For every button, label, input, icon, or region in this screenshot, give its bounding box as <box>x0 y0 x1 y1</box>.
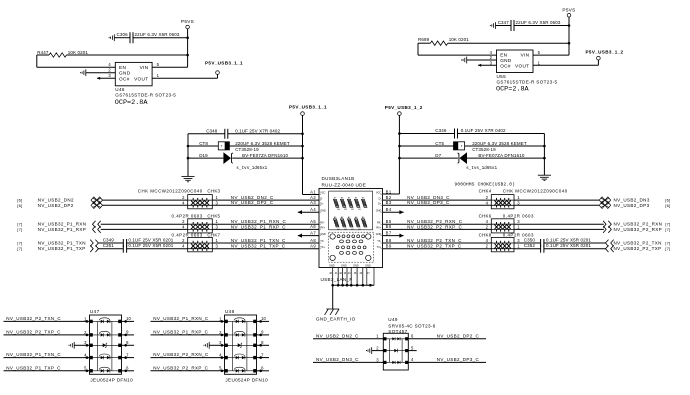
ground U55 pin2 <box>461 57 497 64</box>
svg-text:s_tvs_1d65x1: s_tvs_1d65x1 <box>466 166 497 171</box>
wire P5VS rail down (left) <box>187 29 189 68</box>
capacitor C306 22UF 6.3V X5R 0603 <box>109 32 188 43</box>
svg-text:[7]: [7] <box>17 241 22 246</box>
transistor U48 ESD array JEU0524P <box>151 309 270 383</box>
capacitor C352 0.1UF 25V X5R 0201 <box>514 243 591 253</box>
svg-text:RUU-ZZ-0040 UDE: RUU-ZZ-0040 UDE <box>322 183 367 188</box>
power flag P5V_USB3_1_1 (mid) <box>289 105 327 116</box>
connector pin labels B1-B9 <box>386 189 392 248</box>
svg-text:NV_USB2_DP3_C: NV_USB2_DP3_C <box>407 200 450 205</box>
svg-text:VOUT: VOUT <box>515 64 529 69</box>
connector GND stubs <box>333 268 374 286</box>
connector mounting holes <box>330 234 371 261</box>
power flag P5VS (right) <box>562 7 575 17</box>
wire NV_USB32_P2_TXN_C from connector B8 <box>383 238 492 243</box>
wire GND bus to earth <box>332 285 334 309</box>
ground U47 pin3 <box>68 342 89 349</box>
port NV_USB32_P2_RXP <box>514 226 671 233</box>
svg-text:[7]: [7] <box>665 246 670 251</box>
svg-text:P5V_USB3_1_1: P5V_USB3_1_1 <box>205 60 243 65</box>
svg-text:NV_USB32_P1_RXP: NV_USB32_P1_RXP <box>38 227 86 232</box>
wire P5V_USB3_1_2 rail to connector B1 <box>383 115 401 194</box>
svg-text:BV-FE07ZA DFN1610: BV-FE07ZA DFN1610 <box>478 153 524 158</box>
choke CHK6 <box>486 219 521 233</box>
label CHK5 part number <box>172 213 221 218</box>
connector GND labels bottom <box>329 264 371 267</box>
svg-text:22UF 6.3V X5R 0603: 22UF 6.3V X5R 0603 <box>516 20 561 25</box>
wire NV_USB32_P1_RXP_C to connector A6 <box>212 224 319 229</box>
svg-text:NV_USB32_P1_TXP_C: NV_USB32_P1_TXP_C <box>6 365 61 370</box>
svg-text:P5VS: P5VS <box>562 7 575 12</box>
svg-text:GND: GND <box>376 209 382 212</box>
svg-text:RX+: RX+ <box>320 227 325 230</box>
svg-text:NV_USB32_P1_TXP_C: NV_USB32_P1_TXP_C <box>231 244 286 249</box>
wire NV_USB2_DN3_C to U49 pin3 <box>313 357 383 362</box>
connector pin name labels <box>319 192 383 249</box>
wire C349 to CHK7 <box>127 242 188 244</box>
ground U49 pin2 <box>366 347 383 354</box>
label CHK4 part number <box>479 189 568 194</box>
svg-text:JEU0524P DFN10: JEU0524P DFN10 <box>225 378 268 383</box>
svg-text:RX+: RX+ <box>376 227 381 230</box>
svg-text:EN: EN <box>119 65 126 70</box>
wire U55 VIN pin5 <box>533 54 569 56</box>
wire P5V_USB3_1_1 rail to connector A1 <box>301 115 319 194</box>
svg-text:C346: C346 <box>435 128 447 133</box>
wire NV_USB2_DP2_C from U49 pin6 <box>408 334 486 339</box>
port NV_USB2_DP2 <box>17 202 102 208</box>
svg-text:C306: C306 <box>117 32 129 37</box>
svg-text:A9: A9 <box>310 244 316 249</box>
svg-text:CHK MCCW2012Z090C040: CHK MCCW2012Z090C040 <box>138 189 203 194</box>
wire EN feedback (right) <box>417 43 419 55</box>
svg-text:GND: GND <box>500 58 512 63</box>
svg-text:JEU0524P DFN10: JEU0524P DFN10 <box>90 378 133 383</box>
port NV_USB32_P1_TXN <box>17 240 98 247</box>
svg-text:0.1UF 25V X7R 0402: 0.1UF 25V X7R 0402 <box>235 128 280 133</box>
svg-text:B3: B3 <box>386 200 392 205</box>
wire NV_USB32_P1_RXP to CHK5 <box>101 228 188 230</box>
ground U48 pin3 <box>203 342 224 349</box>
wire NV_USB2_DP3_C from U49 pin4 <box>408 357 486 362</box>
svg-text:NV_USB32_P1_TXN_C: NV_USB32_P1_TXN_C <box>6 352 61 357</box>
connector pin labels A1-A9 <box>310 189 316 248</box>
wire U49 pin5 stub <box>408 345 416 350</box>
svg-text:22UF 6.3V X5R 0603: 22UF 6.3V X5R 0603 <box>135 32 180 37</box>
port NV_USB2_DP3 <box>514 202 671 208</box>
capacitor CT5 220UF 6.3V 3528 KEMET <box>399 141 544 152</box>
svg-text:U46: U46 <box>115 87 125 92</box>
wire EN feedback (left) <box>36 55 38 67</box>
svg-text:OCP=2.8A: OCP=2.8A <box>115 99 149 107</box>
port NV_USB32_P2_TXN <box>544 240 671 247</box>
port NV_USB2_DN2 <box>17 197 102 203</box>
svg-text:0.1UF 25V X5R 0201: 0.1UF 25V X5R 0201 <box>128 237 173 242</box>
svg-text:220UF 6.3V 3528 KEMET: 220UF 6.3V 3528 KEMET <box>472 141 527 146</box>
svg-text:A1: A1 <box>310 189 316 194</box>
svg-text:NV_USB32_P2_RXP: NV_USB32_P2_RXP <box>614 227 662 232</box>
svg-text:R447: R447 <box>37 50 49 55</box>
wire NV_USB2_DN2_C to connector A2 <box>212 195 319 200</box>
svg-text:NV_USB32_P1_TXN_C: NV_USB32_P1_TXN_C <box>231 238 286 243</box>
svg-text:NV_USB32_P2_TXP_C: NV_USB32_P2_TXP_C <box>407 244 462 249</box>
svg-text:0.1UF 25V X5R 0201: 0.1UF 25V X5R 0201 <box>128 243 173 248</box>
transistor U49 ESD array SRV05-4C <box>376 317 436 370</box>
wire NV_USB32_P2_RXN_C from connector B5 <box>383 219 492 224</box>
capacitor C350 0.1UF 25V X5R 0201 <box>514 237 591 247</box>
wire NV_USB2_DN3_C from connector B2 <box>383 195 492 200</box>
wire NV_USB32_P1_RXN_C to connector A5 <box>212 219 319 224</box>
label CHK7 part number <box>172 232 221 237</box>
power flag P5VS (left) <box>181 19 194 29</box>
svg-text:CHK MCCW2012Z090C040: CHK MCCW2012Z090C040 <box>503 189 568 194</box>
wire U46 OC# no-connect arrow <box>97 77 115 80</box>
capacitor C349 0.1UF 25V X5R 0201 <box>98 237 174 247</box>
wire A4 stub arrow <box>298 211 319 213</box>
svg-text:U49: U49 <box>388 317 398 322</box>
svg-text:B8: B8 <box>386 238 392 243</box>
resistor R689 10K 0201 <box>418 37 569 45</box>
svg-text:GS7615STDE-R SOT23-5: GS7615STDE-R SOT23-5 <box>115 93 176 98</box>
svg-text:U55: U55 <box>497 74 507 79</box>
svg-text:CT3528-19: CT3528-19 <box>235 147 259 152</box>
power flag P5V_USB3_1_2 (mid) <box>385 105 423 115</box>
ground earth (left filter) <box>181 176 194 181</box>
svg-text:CHK6: CHK6 <box>479 213 492 218</box>
svg-text:TX-: TX- <box>320 240 324 243</box>
ground earth (right filter) <box>538 175 551 180</box>
wire P5VS rail down (right) <box>568 17 570 55</box>
svg-text:NV_USB2_DN2_C: NV_USB2_DN2_C <box>316 334 359 339</box>
connector contact pads row2 <box>334 219 367 227</box>
svg-text:GND: GND <box>341 264 347 267</box>
svg-text:U47: U47 <box>90 309 100 314</box>
svg-text:NV_USB2_DN3_C: NV_USB2_DN3_C <box>316 357 359 362</box>
svg-text:R689: R689 <box>418 37 430 42</box>
svg-text:NV_USB32_P2_RXP_C: NV_USB32_P2_RXP_C <box>153 365 208 370</box>
svg-text:P5VS: P5VS <box>181 19 194 24</box>
svg-text:CHK8: CHK8 <box>479 232 492 237</box>
power flag P5V_USB3_1_2 (top) <box>586 50 624 60</box>
svg-text:NV_USB2_DP2: NV_USB2_DP2 <box>38 203 74 208</box>
port NV_USB32_P2_RXN <box>514 221 671 228</box>
connector inner shield box <box>329 191 373 230</box>
svg-text:NV_USB32_P1_RXP_C: NV_USB32_P1_RXP_C <box>231 224 286 229</box>
svg-text:D19: D19 <box>199 153 208 158</box>
svg-text:VIN: VIN <box>140 65 149 70</box>
svg-text:0.1UF 25V X5R 0201: 0.1UF 25V X5R 0201 <box>546 237 591 242</box>
wire NV_USB2_DP2_C to connector A3 <box>212 200 319 205</box>
svg-text:CT3528-19: CT3528-19 <box>472 147 496 152</box>
svg-text:TX-: TX- <box>377 240 381 243</box>
svg-text:CT8: CT8 <box>199 141 208 146</box>
wire NV_USB2_DN2_C to U49 pin1 <box>313 334 383 339</box>
wire NV_USB2_DP2 to CHK3 <box>103 204 188 206</box>
port NV_USB2_DN3 <box>514 197 671 203</box>
svg-text:U48: U48 <box>225 309 235 314</box>
svg-text:D+: D+ <box>378 203 382 206</box>
svg-text:VCC: VCC <box>376 192 381 195</box>
svg-text:CHK3: CHK3 <box>207 189 220 194</box>
capacitor CT8 220UF 6.3V 3528 KEMET <box>188 141 303 152</box>
transistor U47 ESD array JEU0524P <box>4 309 135 383</box>
svg-text:0.1UF 25V X7R 0402: 0.1UF 25V X7R 0402 <box>461 128 506 133</box>
svg-text:NV_USB32_P1_TXN: NV_USB32_P1_TXN <box>38 241 86 246</box>
svg-text:CHK7: CHK7 <box>207 232 220 237</box>
op-amp U55 regulator GS7615STDE-R <box>490 50 558 94</box>
svg-text:NV_USB32_P2_RXN_C: NV_USB32_P2_RXN_C <box>153 352 209 357</box>
choke CHK3 <box>182 195 218 209</box>
svg-text:C351: C351 <box>103 243 115 248</box>
svg-text:NV_USB32_P1_TXP: NV_USB32_P1_TXP <box>38 246 86 251</box>
svg-text:A8: A8 <box>310 238 316 243</box>
capacitor C346 0.1UF 25V X7R 0402 <box>399 128 544 138</box>
svg-text:P5V_USB3_1_1: P5V_USB3_1_1 <box>289 105 327 110</box>
svg-text:NV_USB32_P2_RXP_C: NV_USB32_P2_RXP_C <box>407 224 462 229</box>
connector through holes <box>336 235 366 254</box>
svg-text:220UF 6.3V 3528 KEMET: 220UF 6.3V 3528 KEMET <box>235 141 290 146</box>
wire U55 VOUT to P5V_USB3_1_2 <box>533 60 598 65</box>
svg-text:D-: D- <box>320 197 323 200</box>
wire B4 stub arrow <box>383 211 404 213</box>
wire U46 VOUT to P5V_USB3_1_1 <box>152 74 217 78</box>
svg-text:C350: C350 <box>524 237 536 242</box>
svg-text:NV_USB32_P2_TXP_C: NV_USB32_P2_TXP_C <box>6 330 61 335</box>
svg-text:GND: GND <box>320 233 326 236</box>
capacitor C351 0.1UF 25V X5R 0201 <box>98 243 174 253</box>
ground U46 pin2 <box>80 69 115 76</box>
wire U46 VIN pin5 <box>152 66 188 68</box>
svg-text:B4: B4 <box>386 207 392 212</box>
svg-text:10K 0201: 10K 0201 <box>449 37 470 42</box>
svg-text:s_tvs_1d65x1: s_tvs_1d65x1 <box>236 166 267 171</box>
svg-text:B7: B7 <box>386 230 392 235</box>
port NV_USB32_P2_TXP <box>544 245 671 252</box>
label CHK3 part number <box>138 189 221 194</box>
svg-text:GND: GND <box>329 264 335 267</box>
svg-text:DUSB3LAN1B: DUSB3LAN1B <box>322 176 355 181</box>
svg-text:C347: C347 <box>498 20 510 25</box>
svg-text:OCP=2.8A: OCP=2.8A <box>496 86 530 94</box>
svg-text:BV-FE07ZA DFN1610: BV-FE07ZA DFN1610 <box>242 153 288 158</box>
connector contact pads row1 <box>334 199 367 207</box>
svg-text:NV_USB32_P1_RXP_C: NV_USB32_P1_RXP_C <box>153 330 208 335</box>
svg-text:GND: GND <box>320 209 326 212</box>
svg-text:GND: GND <box>365 264 371 267</box>
svg-text:D-: D- <box>379 197 382 200</box>
svg-text:OC#: OC# <box>119 76 130 81</box>
svg-text:CHK4: CHK4 <box>479 189 492 194</box>
svg-text:[7]: [7] <box>17 227 22 232</box>
choke CHK5 <box>182 219 218 233</box>
svg-text:NV_USB2_DP3_C: NV_USB2_DP3_C <box>437 357 480 362</box>
svg-text:10: 10 <box>126 316 131 321</box>
wire NV_USB32_P2_TXP_C from connector B9 <box>383 244 492 249</box>
svg-text:B1: B1 <box>386 189 392 194</box>
svg-text:GND: GND <box>119 71 131 76</box>
svg-text:D+: D+ <box>320 203 324 206</box>
svg-text:CT5: CT5 <box>435 141 444 146</box>
svg-text:C349: C349 <box>103 237 115 242</box>
choke CHK7 <box>182 237 218 251</box>
svg-text:GND_EARTH_IO: GND_EARTH_IO <box>316 317 356 322</box>
label CHK8 part number <box>479 232 534 237</box>
svg-text:P5V_USB3_1_2: P5V_USB3_1_2 <box>586 50 624 55</box>
svg-text:NV_USB32_P2_TXP: NV_USB32_P2_TXP <box>614 246 662 251</box>
wire C351 to CHK7 <box>127 248 188 250</box>
svg-text:[7]: [7] <box>665 241 670 246</box>
svg-text:VOUT: VOUT <box>134 76 148 81</box>
svg-text:A6: A6 <box>310 224 316 229</box>
svg-text:NV_USB32_P2_TXN_C: NV_USB32_P2_TXN_C <box>407 238 462 243</box>
svg-text:900OHMS CHOKE(USB2.0): 900OHMS CHOKE(USB2.0) <box>455 183 516 188</box>
wire NV_USB32_P2_RXP_C from connector B6 <box>383 224 492 229</box>
svg-text:[6]: [6] <box>665 203 670 208</box>
wire B7 stub arrow <box>383 235 404 237</box>
svg-text:[6]: [6] <box>17 203 22 208</box>
wire NV_USB32_P1_TXP_C to connector A9 <box>212 244 319 249</box>
capacitor C348 0.1UF 25V X7R 0402 <box>188 128 303 138</box>
svg-text:C352: C352 <box>524 243 536 248</box>
resistor R447 10K 0201 <box>37 50 188 57</box>
svg-text:NV_USB2_DP3: NV_USB2_DP3 <box>614 203 650 208</box>
wire NV_USB2_DP3_C from connector B3 <box>383 200 492 205</box>
wire right ground rail <box>543 134 546 176</box>
wire GND bus <box>331 284 374 287</box>
svg-text:NV_USB32_P2_TXN_C: NV_USB32_P2_TXN_C <box>6 316 61 321</box>
svg-text:GND: GND <box>376 233 382 236</box>
svg-text:0.4P2R 0603: 0.4P2R 0603 <box>503 213 534 218</box>
svg-text:10: 10 <box>261 316 266 321</box>
label CHK6 part number <box>479 213 534 218</box>
svg-text:B9: B9 <box>386 244 392 249</box>
svg-text:GS7615STDE-R SOT23-5: GS7615STDE-R SOT23-5 <box>497 80 558 85</box>
op-amp U46 regulator GS7615STDE-R <box>108 62 176 107</box>
svg-text:VCC: VCC <box>320 192 325 195</box>
svg-text:D7: D7 <box>435 153 441 158</box>
wire left ground rail <box>187 134 190 176</box>
svg-text:0.4P2R 0603: 0.4P2R 0603 <box>172 232 203 237</box>
svg-text:TX+: TX+ <box>377 246 382 249</box>
capacitor C347 22UF 6.3V X5R 0603 <box>490 20 569 31</box>
svg-text:C348: C348 <box>206 128 218 133</box>
svg-text:NV_USB2_DP2_C: NV_USB2_DP2_C <box>231 200 274 205</box>
svg-text:NV_USB2_DP2_C: NV_USB2_DP2_C <box>437 334 480 339</box>
svg-text:OC#: OC# <box>500 64 511 69</box>
svg-text:0.1UF 25V X5R 0201: 0.1UF 25V X5R 0201 <box>546 243 591 248</box>
svg-text:P5V_USB3_1_2: P5V_USB3_1_2 <box>385 105 423 110</box>
svg-text:USB3_LAN_F: USB3_LAN_F <box>321 277 353 282</box>
connector lower dashed box <box>329 232 374 262</box>
svg-text:EN: EN <box>500 53 507 58</box>
svg-text:TX+: TX+ <box>320 246 325 249</box>
svg-text:A3: A3 <box>310 200 316 205</box>
port NV_USB32_P1_RXN <box>17 221 100 228</box>
wire NV_USB32_P1_RXN to CHK5 <box>101 223 188 225</box>
connector GND stub pin numbers <box>329 272 370 275</box>
svg-text:RX-: RX- <box>377 221 381 224</box>
port NV_USB32_P1_TXP <box>17 245 98 252</box>
wire U55 OC# no-connect arrow <box>478 64 497 67</box>
svg-text:GND: GND <box>353 264 359 267</box>
svg-text:NV_USB32_P1_RXN_C: NV_USB32_P1_RXN_C <box>153 316 209 321</box>
chassis ground GND_EARTH_IO <box>325 309 340 315</box>
wire A7 stub arrow <box>298 235 319 237</box>
svg-text:[7]: [7] <box>665 227 670 232</box>
svg-text:[7]: [7] <box>17 246 22 251</box>
svg-text:0.4P2R 0603: 0.4P2R 0603 <box>172 213 203 218</box>
svg-text:B6: B6 <box>386 224 392 229</box>
wire NV_USB2_DN2 to CHK3 <box>103 199 188 201</box>
svg-text:VIN: VIN <box>521 53 530 58</box>
choke CHK8 <box>486 237 521 251</box>
svg-text:RX-: RX- <box>320 221 324 224</box>
svg-text:SRV05-4C SOT23-6: SRV05-4C SOT23-6 <box>388 323 435 328</box>
svg-text:CHK5: CHK5 <box>207 213 220 218</box>
choke CHK4 <box>486 195 521 209</box>
connector J1 DUSB3LAN1B RUU-ZZ-0040 UDE <box>319 176 383 267</box>
svg-text:10K 0201: 10K 0201 <box>68 50 89 55</box>
svg-text:NV_USB32_P2_TXN: NV_USB32_P2_TXN <box>614 241 662 246</box>
svg-text:A4: A4 <box>310 207 316 212</box>
wire NV_USB32_P1_TXN_C to connector A8 <box>212 238 319 243</box>
port NV_USB32_P1_RXP <box>17 226 100 233</box>
diode D7 BV-FE07ZA DFN1610 <box>399 152 544 171</box>
diode D19 BV-FE07ZA DFN1610 <box>188 152 303 171</box>
svg-text:A7: A7 <box>310 230 316 235</box>
power flag P5V_USB3_1_1 (top) <box>205 60 243 74</box>
